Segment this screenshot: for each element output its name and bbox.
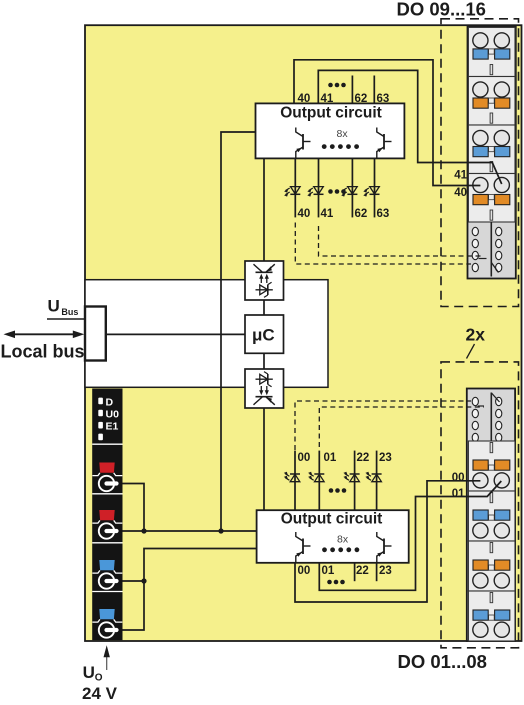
2x callout line [467, 344, 475, 359]
power terminal 2 (24V, red) [99, 510, 114, 520]
svg-text:40: 40 [454, 187, 467, 199]
status LED window U0 [98, 410, 103, 417]
junction dot terminal 3/4 rail [141, 578, 146, 583]
svg-text:DO 01...08: DO 01...08 [398, 651, 487, 672]
wire local bus to microcontroller [106, 333, 245, 335]
terminal unit row 3 (orange) [468, 541, 515, 591]
status LED window D [98, 398, 103, 405]
LED indicator 23 [365, 472, 381, 482]
dashed channel outline 01 [319, 407, 484, 447]
dashed group box DO 01...08 [441, 362, 519, 648]
terminal unit row 1 (blue) [468, 27, 515, 76]
svg-text:41: 41 [321, 93, 334, 105]
LED indicator 22 [343, 472, 359, 482]
svg-text:40: 40 [298, 93, 311, 105]
wire stub 62 above output circuit [351, 76, 353, 104]
svg-text:Output circuit: Output circuit [280, 104, 382, 121]
wire from output circuit to bus coupler [263, 158, 265, 261]
LED level dots lower [329, 488, 334, 493]
LED branch wire 22 [354, 451, 356, 511]
output circuit box (lower, DO 01...08) [257, 510, 409, 563]
junction dot supply rail / top circuit drop [218, 528, 223, 533]
LED branch wire 40 [294, 158, 296, 217]
white band across module (bus section) [85, 280, 328, 388]
LED indicator 41 [314, 187, 324, 194]
transistor Q3 (lower box left) [302, 539, 304, 555]
svg-text:62: 62 [355, 208, 368, 220]
terminal 00/01 unit row 1 (orange), wired [468, 441, 515, 491]
LED branch wire 00 [294, 451, 296, 511]
repetition dots upper box [322, 144, 327, 149]
wire: supply from top output circuit left down to 24V rail [221, 132, 256, 531]
svg-text:U: U [83, 663, 95, 682]
stub dots above upper box [328, 83, 333, 88]
svg-text:Local bus: Local bus [1, 342, 85, 362]
svg-text:01: 01 [324, 452, 337, 464]
dashed channel outline 00 [295, 401, 471, 450]
wire microcontroller to lower coupler [263, 353, 265, 369]
LED indicator 00 [284, 472, 300, 482]
svg-text:U0: U0 [106, 408, 120, 420]
LED branch wire 63 [374, 158, 376, 217]
svg-text:62: 62 [355, 93, 368, 105]
LED branch wire 41 [318, 158, 320, 217]
svg-text:40: 40 [298, 208, 311, 220]
svg-text:41: 41 [321, 208, 334, 220]
transistor Q2 (upper box right) [383, 134, 385, 150]
LED level dots upper [328, 189, 333, 194]
junction dot supply rail 1 [141, 528, 146, 533]
power terminal 3 (GND, blue) [99, 560, 114, 570]
module body (yellow block) [85, 25, 522, 641]
svg-text:μC: μC [252, 326, 275, 345]
U_Bus wire stub [47, 318, 85, 320]
dashed group box DO 09...16 [441, 19, 519, 307]
transistor Q1 (upper box left) [302, 134, 304, 150]
output circuit box (upper, DO 09...16) [256, 103, 405, 158]
strip1 keying section [490, 222, 492, 277]
wire: output 00 from circuit bottom to terminal 00 [295, 481, 480, 602]
wire: 24V terminal 1 feed [119, 484, 144, 532]
local bus double arrow [13, 333, 74, 335]
wire stub 23 below output circuit [376, 563, 378, 581]
wire lower coupler to lower output circuit [263, 408, 265, 510]
terminal strip DO 09...16 [468, 27, 516, 279]
terminal strip DO 01...08 [467, 389, 515, 642]
svg-text:D: D [106, 396, 114, 408]
terminal unit row 4 (blue) [468, 591, 515, 641]
LED indicator 62 [348, 187, 358, 194]
strip cell separators [92, 443, 122, 445]
status LED window 4 [98, 434, 103, 441]
svg-text:24 V: 24 V [82, 684, 118, 700]
transistor Q4 (lower box right) [383, 539, 385, 555]
power terminal 1 (24V, red) [99, 463, 114, 473]
wire: output 41 from circuit top to terminal 41 [318, 70, 501, 184]
dashed channel outline 41 [319, 226, 485, 256]
svg-text:00: 00 [298, 565, 311, 577]
svg-text:U: U [48, 296, 60, 315]
wire: terminal 3 feed [119, 580, 144, 582]
wire: output 40 from circuit top to terminal 40 [294, 60, 480, 186]
svg-text:22: 22 [356, 565, 369, 577]
svg-text:E1: E1 [106, 421, 119, 433]
LED branch wire 23 [376, 451, 378, 511]
svg-text:41: 41 [454, 170, 467, 182]
U_O 24V supply arrow [106, 655, 108, 670]
svg-text:8x: 8x [337, 534, 349, 546]
svg-text:63: 63 [377, 208, 390, 220]
svg-text:DO 09...16: DO 09...16 [397, 0, 486, 19]
svg-text:00: 00 [452, 472, 465, 484]
terminal unit row 3 (blue) [468, 125, 515, 174]
svg-text:2x: 2x [466, 325, 486, 345]
wire: output 01 from circuit bottom to terminal 01 [319, 481, 501, 590]
LED indicator 63 [370, 187, 380, 194]
dashed channel outline 40 [295, 223, 471, 265]
svg-text:23: 23 [379, 452, 392, 464]
bus coupler U3 (receive down) [245, 369, 284, 408]
svg-text:00: 00 [298, 452, 311, 464]
terminal unit row 2 (orange) [468, 77, 515, 126]
wire: terminal 4 feed to lower output circuit [119, 549, 257, 631]
strip2 keying section [490, 393, 492, 442]
power terminal 4 (GND, blue) [99, 609, 114, 619]
LED branch wire 01 [318, 451, 320, 511]
wire stub 22 below output circuit [354, 563, 356, 581]
svg-text:23: 23 [379, 565, 392, 577]
svg-text:22: 22 [357, 452, 370, 464]
wire coupler to microcontroller [263, 300, 265, 315]
svg-text:O: O [95, 673, 103, 684]
LED indicator 40 [291, 187, 301, 194]
svg-text:Bus: Bus [61, 307, 78, 317]
wire: 24V terminal 2 feed to output circuits [119, 530, 257, 532]
svg-text:8x: 8x [337, 128, 349, 140]
svg-text:Output circuit: Output circuit [281, 510, 383, 527]
local bus connector box [85, 307, 106, 361]
LED branch wire 62 [351, 158, 353, 217]
wire stub 63 above output circuit [373, 76, 375, 104]
terminal unit row 2 (blue) [468, 491, 515, 541]
LED indicator 01 [308, 472, 324, 482]
status LED window E1 [98, 422, 103, 429]
svg-text:01: 01 [452, 488, 465, 500]
stub dots below lower box [327, 580, 332, 585]
repetition dots lower box [322, 547, 327, 552]
power connector strip (black) [92, 389, 122, 641]
microcontroller U1 [245, 315, 284, 353]
bus coupler U2 (transmit up) [245, 261, 284, 300]
svg-text:01: 01 [322, 565, 335, 577]
terminal unit row 4 (orange), wired 41/40 [468, 174, 515, 223]
svg-text:63: 63 [377, 93, 390, 105]
